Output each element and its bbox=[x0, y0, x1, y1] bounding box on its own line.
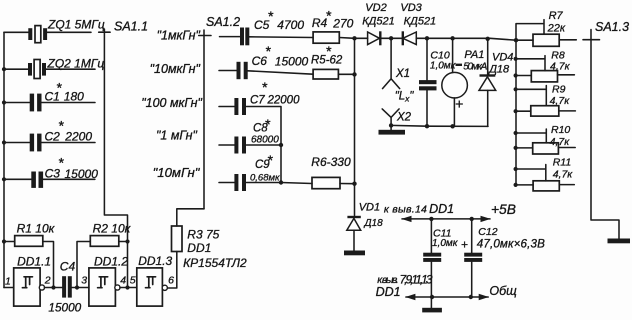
svg-text:15000: 15000 bbox=[275, 55, 309, 69]
svg-text:15000: 15000 bbox=[65, 167, 99, 181]
node range labels bbox=[141, 29, 202, 181]
svg-text:+5В: +5В bbox=[491, 202, 516, 217]
crystal ZQ1 bbox=[4, 18, 105, 43]
svg-text:*: * bbox=[326, 43, 332, 59]
gate DD1.2 bbox=[81, 255, 137, 306]
capacitor C5 bbox=[220, 8, 314, 45]
resistor R4 bbox=[312, 8, 357, 44]
svg-text:ZQ2 1МГц: ZQ2 1МГц bbox=[47, 57, 105, 71]
svg-text:R11: R11 bbox=[553, 156, 571, 168]
svg-text:7,9,11,13: 7,9,11,13 bbox=[400, 273, 433, 287]
capacitor C7 bbox=[219, 79, 300, 183]
diode VD2 bbox=[355, 2, 403, 45]
svg-text:X1: X1 bbox=[395, 68, 410, 80]
svg-text:Д18: Д18 bbox=[364, 218, 384, 229]
svg-text:4,7к: 4,7к bbox=[550, 95, 571, 107]
svg-text:*: * bbox=[58, 118, 64, 134]
svg-text:*: * bbox=[326, 8, 332, 24]
svg-text:VD1: VD1 bbox=[359, 202, 380, 214]
capacitor C1 bbox=[2, 80, 95, 112]
ground under VD1 bbox=[344, 251, 365, 256]
svg-text:*: * bbox=[268, 8, 274, 24]
svg-text:R10: R10 bbox=[551, 124, 570, 136]
capacitor C2 bbox=[2, 118, 95, 152]
capacitor C8 bbox=[219, 116, 283, 154]
svg-text:SA1.2: SA1.2 bbox=[206, 15, 240, 29]
resistor R9 bbox=[514, 84, 576, 117]
svg-text:270: 270 bbox=[332, 16, 353, 30]
svg-text:4700: 4700 bbox=[277, 18, 304, 32]
svg-text:"10мкГн": "10мкГн" bbox=[150, 62, 201, 76]
wire main vertical bbox=[354, 38, 356, 215]
svg-text:*: * bbox=[265, 116, 271, 132]
resistor R6 bbox=[281, 155, 357, 189]
svg-text:VD4: VD4 bbox=[492, 52, 513, 64]
svg-text:"100 мкГн": "100 мкГн" bbox=[141, 96, 202, 110]
svg-text:*: * bbox=[265, 43, 271, 59]
svg-text:22000: 22000 bbox=[267, 95, 301, 107]
resistor R2 bbox=[75, 222, 132, 290]
resistor R1 bbox=[2, 222, 56, 290]
wire +5V rail bbox=[401, 216, 490, 222]
resistor R10 bbox=[514, 124, 576, 154]
switch SA1.2 bbox=[199, 15, 240, 209]
svg-text:"1мкГн": "1мкГн" bbox=[157, 29, 201, 43]
svg-text:+: + bbox=[461, 237, 468, 251]
svg-text:КД521: КД521 bbox=[404, 16, 437, 28]
svg-text:C7: C7 bbox=[250, 95, 265, 107]
svg-text:4,7к: 4,7к bbox=[553, 168, 574, 180]
wire common rail bbox=[405, 294, 489, 300]
node X1 junction on rail bbox=[389, 36, 393, 40]
capacitor C10 bbox=[419, 36, 457, 128]
svg-text:*: * bbox=[267, 152, 273, 168]
ground under C11 bbox=[422, 297, 442, 312]
svg-text:C10: C10 bbox=[430, 50, 449, 62]
svg-text:DD1.1: DD1.1 bbox=[17, 255, 51, 269]
svg-text:4,7к: 4,7к bbox=[550, 61, 571, 73]
svg-text:ZQ1 5МГц: ZQ1 5МГц bbox=[47, 18, 105, 32]
svg-text:DD1: DD1 bbox=[376, 285, 401, 299]
svg-text:VD3: VD3 bbox=[400, 2, 422, 14]
resistor R8 bbox=[514, 50, 575, 82]
svg-text:DD1.2: DD1.2 bbox=[94, 255, 128, 269]
svg-text:SA1.1: SA1.1 bbox=[114, 19, 148, 33]
svg-text:4: 4 bbox=[120, 275, 126, 287]
svg-text:*: * bbox=[262, 79, 268, 95]
svg-text:PA1: PA1 bbox=[464, 49, 484, 61]
resistor R5 bbox=[311, 43, 357, 79]
diode VD4 bbox=[479, 37, 513, 127]
meter PA1 bbox=[442, 36, 488, 128]
resistor R7 bbox=[516, 10, 576, 46]
terminal X1 bbox=[383, 38, 411, 88]
capacitor C11 bbox=[423, 219, 459, 297]
svg-text:КД521: КД521 bbox=[362, 16, 395, 28]
svg-text:3: 3 bbox=[81, 275, 87, 287]
svg-text:R9: R9 bbox=[552, 84, 566, 96]
capacitor C12 bbox=[461, 219, 545, 297]
gate DD1.3 bbox=[130, 254, 174, 306]
terminal X2 bbox=[382, 109, 411, 128]
svg-text:180: 180 bbox=[64, 90, 84, 104]
ground SA1.3 bbox=[608, 239, 631, 244]
svg-text:C4: C4 bbox=[60, 260, 76, 274]
svg-text:"1 мГн": "1 мГн" bbox=[156, 129, 198, 143]
resistor R3 bbox=[168, 209, 220, 288]
svg-text:5: 5 bbox=[130, 275, 136, 287]
svg-text:КР1554ТЛ2: КР1554ТЛ2 bbox=[183, 256, 247, 270]
svg-text:*: * bbox=[58, 155, 64, 171]
svg-text:6: 6 bbox=[168, 275, 174, 287]
svg-text:22к: 22к bbox=[547, 23, 566, 35]
svg-text:к выв.14: к выв.14 bbox=[384, 203, 427, 215]
svg-text:SA1.3: SA1.3 bbox=[595, 20, 629, 34]
gate DD1.1 bbox=[4, 255, 62, 306]
svg-text:2200: 2200 bbox=[64, 130, 92, 144]
switch SA1.1 bbox=[99, 19, 148, 287]
switch SA1.3 bbox=[583, 20, 629, 239]
svg-text:2: 2 bbox=[44, 275, 51, 287]
wire right bus bbox=[515, 40, 517, 185]
wire bottom meter rail bbox=[391, 125, 488, 126]
capacitor C4 bbox=[48, 260, 89, 315]
svg-text:DD1.3: DD1.3 bbox=[138, 254, 172, 268]
svg-text:Общ: Общ bbox=[489, 284, 517, 298]
svg-text:DD1: DD1 bbox=[187, 241, 211, 255]
svg-text:15000: 15000 bbox=[48, 301, 81, 315]
svg-text:DD1: DD1 bbox=[429, 202, 454, 216]
resistor R11 bbox=[514, 156, 575, 191]
svg-text:68000: 68000 bbox=[251, 135, 279, 146]
svg-text:"10мГн": "10мГн" bbox=[153, 165, 201, 180]
svg-text:R3 75: R3 75 bbox=[187, 228, 219, 242]
svg-text:50мкА: 50мкА bbox=[463, 61, 487, 72]
diode VD1 bbox=[347, 202, 383, 251]
svg-text:1,0мк: 1,0мк bbox=[432, 238, 459, 249]
svg-text:4,7к: 4,7к bbox=[550, 136, 571, 148]
svg-text:+: + bbox=[455, 96, 463, 112]
capacitor C6 bbox=[219, 43, 313, 79]
svg-text:R7: R7 bbox=[549, 10, 564, 22]
crystal ZQ2 bbox=[2, 57, 104, 79]
ground under X2 bbox=[379, 125, 406, 134]
svg-text:*: * bbox=[56, 80, 62, 96]
svg-text:"Lx": "Lx" bbox=[395, 91, 415, 104]
svg-text:R6-330: R6-330 bbox=[311, 155, 351, 169]
svg-text:C12: C12 bbox=[478, 226, 497, 238]
svg-text:R1 10к: R1 10к bbox=[17, 222, 56, 236]
svg-text:1: 1 bbox=[5, 276, 11, 288]
diode VD3 bbox=[400, 2, 516, 45]
svg-text:47,0мк×6,3В: 47,0мк×6,3В bbox=[477, 238, 545, 251]
svg-text:0,68мк: 0,68мк bbox=[250, 173, 280, 184]
wire left bus bbox=[3, 32, 5, 287]
capacitor C3 bbox=[2, 155, 98, 188]
svg-text:R2 10к: R2 10к bbox=[93, 222, 132, 236]
svg-text:Д18: Д18 bbox=[487, 64, 510, 76]
svg-text:X2: X2 bbox=[396, 112, 412, 124]
capacitor C9 bbox=[219, 152, 283, 191]
svg-text:VD2: VD2 bbox=[365, 2, 386, 14]
